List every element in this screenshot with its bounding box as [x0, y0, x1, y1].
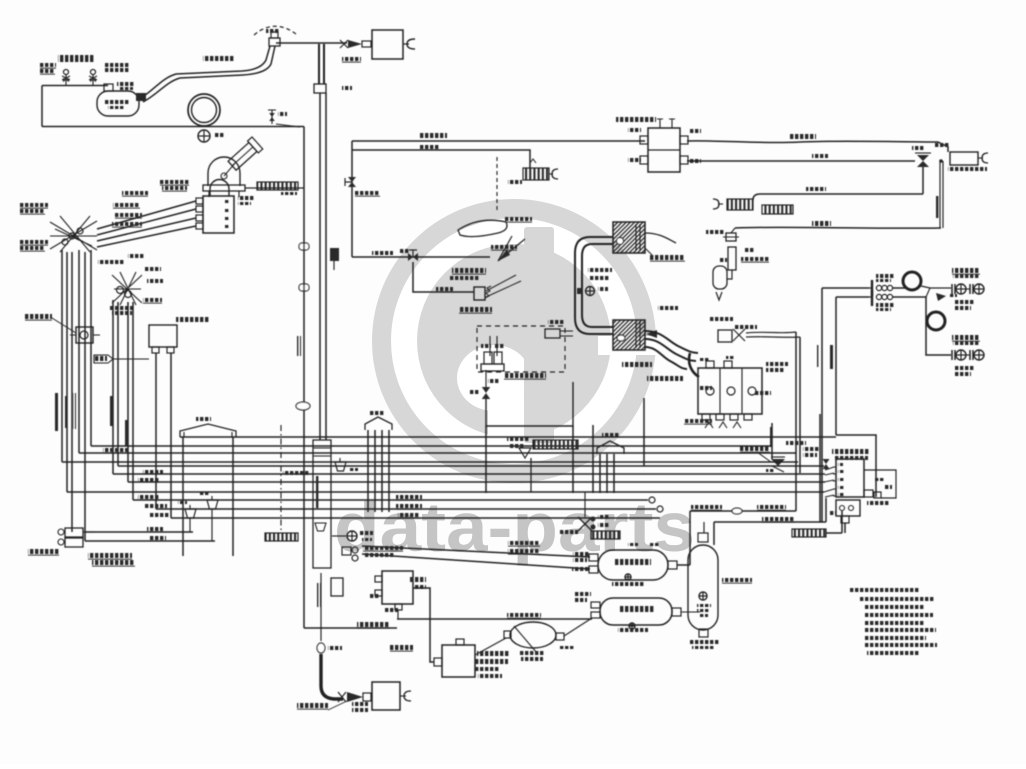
wire bus y474	[113, 473, 825, 475]
lift valve manifold	[698, 361, 762, 428]
heater inlet arrow fitting	[340, 40, 371, 48]
wire drop x128	[127, 302, 129, 482]
wire radiator to right drop	[245, 187, 304, 189]
control valve hatched A	[613, 222, 685, 261]
radiator filler neck	[227, 137, 263, 172]
label near tee valve top	[912, 146, 924, 150]
air dryer inlet fitting	[706, 228, 739, 241]
coupler dark triangle	[936, 293, 957, 301]
tank cover tent 1	[180, 417, 236, 437]
hose manifold inlet	[689, 353, 699, 377]
name plate mid 2	[591, 531, 620, 539]
wire x836 drop	[835, 297, 837, 435]
wire reservoir feed 1	[362, 546, 590, 557]
heater C-connector	[403, 39, 415, 49]
fitting on x303	[296, 402, 310, 410]
wire compressor port 4	[97, 222, 196, 247]
wire valve drop to y292	[413, 262, 474, 292]
coiled hose A	[903, 272, 921, 290]
labels port compressor right	[238, 196, 254, 205]
label mid right y452	[786, 441, 806, 445]
labels above cluster B	[128, 254, 144, 258]
steering column ladder	[313, 440, 331, 568]
wire oval to reservoir2	[564, 618, 592, 636]
dark component x330	[330, 248, 339, 270]
wire compressor port 18	[97, 213, 196, 241]
shutoff valve under heater	[470, 370, 490, 399]
hand valve C connector	[400, 691, 411, 701]
direction arrow figure	[498, 236, 525, 261]
bus funnel valve 2	[200, 492, 218, 541]
wire manifold links	[746, 332, 800, 337]
labels right heater dashed	[548, 320, 564, 324]
fitting lower x321	[317, 643, 342, 653]
heater sub box	[486, 382, 573, 426]
wire bus y437	[180, 436, 836, 438]
air dryer tank	[713, 258, 732, 300]
air reservoir 1	[572, 550, 677, 586]
wire x430 link	[413, 588, 434, 662]
drain valve symbol	[198, 130, 224, 142]
wire x303 bottom corner	[304, 622, 397, 628]
wire second top bus	[352, 145, 530, 168]
labels around cluster B	[98, 260, 163, 315]
pipe from tank to cab heater	[136, 46, 275, 102]
hose coupling A	[869, 274, 894, 296]
center labels	[450, 268, 486, 280]
distributor block	[833, 459, 864, 497]
wire x800 drop	[799, 337, 801, 473]
wire vertical x352	[351, 141, 353, 257]
wire x303 long	[303, 127, 305, 629]
distributor outer wire	[864, 470, 896, 498]
wire drop x941 pipe	[939, 159, 943, 228]
relief valve 2	[89, 70, 97, 86]
label thick hose	[297, 701, 347, 710]
junction cluster A	[50, 216, 97, 252]
labels near x941 pipe	[936, 196, 939, 218]
wire reservoir feed 2	[362, 554, 590, 569]
label plate header top-left	[58, 55, 94, 62]
wire coupling A to coil	[893, 287, 906, 289]
wire callout to box	[113, 358, 149, 360]
tee valve right	[915, 153, 931, 167]
wire compressor port 1	[97, 191, 196, 229]
wire x486 drop	[485, 426, 487, 493]
label callout left	[25, 314, 76, 333]
hose coupling B	[869, 290, 894, 311]
air compressor	[196, 180, 234, 234]
brake chamber pair B	[952, 335, 984, 376]
loop cross fitting	[577, 268, 612, 296]
thick hose bottom-left	[321, 654, 343, 699]
wire bus y446	[91, 445, 772, 447]
foot brake valve	[58, 528, 95, 547]
union fitting 1 on x304	[299, 243, 309, 250]
pipe column fitting	[314, 84, 326, 93]
wire bus y518	[171, 517, 660, 519]
wire tent3 drops	[600, 454, 614, 493]
wire bus y466	[118, 465, 824, 467]
labels right of dryer	[745, 248, 755, 252]
wire x573 drop	[572, 426, 574, 493]
watermark text data-parts	[334, 488, 695, 566]
labels distributor right small	[874, 478, 884, 481]
vertical air tank	[688, 522, 752, 644]
right heater box	[935, 143, 988, 171]
wire x644 drop	[643, 398, 645, 466]
tank cover tent 3	[597, 433, 624, 454]
wire hatched A to right	[645, 233, 676, 243]
lower left small box	[331, 578, 343, 596]
hand control valve box	[372, 682, 400, 710]
reservoir tank (cloud)	[97, 82, 139, 116]
label plate right of radiator	[257, 182, 298, 195]
label above x352 lower	[355, 191, 380, 196]
clutch component	[70, 327, 100, 343]
wire drop x113	[112, 300, 114, 474]
wire relay to oval tank	[475, 638, 506, 655]
wire x772 drop	[769, 423, 772, 459]
trailer label plate	[792, 529, 826, 537]
vertical label bar x297	[297, 336, 301, 356]
labels above manifold	[700, 356, 734, 361]
distributor right ports	[864, 485, 892, 505]
air dryer cartridge	[728, 247, 769, 270]
wire x826 riser	[825, 498, 827, 522]
rotated labels top-left of bus	[55, 393, 128, 446]
heater pipe right column	[319, 44, 324, 84]
wire long top bus to relay	[352, 133, 645, 141]
governor label plate	[762, 205, 793, 214]
wire x822 long drop	[821, 288, 823, 522]
cab heater box	[372, 30, 403, 59]
distributor fan wires	[824, 467, 834, 497]
labels near manifold right	[766, 362, 788, 372]
wire line B elbow	[893, 297, 951, 355]
control valve hatched B	[613, 306, 678, 350]
dash-dot datum line	[280, 425, 282, 530]
wire air-tank top line	[42, 85, 108, 87]
wire distributor bottom drop	[844, 523, 846, 533]
wire to governor plates	[753, 187, 923, 200]
label under heater inlet	[342, 57, 361, 62]
wire drop from tee	[922, 167, 924, 194]
wire drop x72	[71, 252, 73, 532]
wire drop x67	[66, 252, 68, 492]
x fitting mid	[578, 492, 609, 531]
wire x820 drop	[819, 414, 821, 522]
wire relay lower to right	[687, 154, 915, 161]
manifold X fitting	[710, 317, 757, 342]
bus labels mid	[283, 471, 422, 518]
tank cover tent 2	[365, 411, 392, 430]
wire drop x91	[90, 250, 92, 446]
name plate mid	[507, 437, 578, 449]
wire bus y532	[85, 531, 193, 533]
wire drop x79	[78, 250, 80, 453]
labels foot brake	[28, 549, 135, 566]
wire tent1 drops	[183, 437, 233, 556]
wire bus y541	[85, 540, 215, 542]
wire drop x62	[61, 250, 63, 462]
wire tent2 drops	[368, 430, 389, 512]
relay valve block	[390, 639, 510, 678]
wire y257 center	[352, 251, 490, 257]
brake light switch	[459, 275, 521, 313]
wire relay to right heater box	[687, 134, 948, 152]
bus funnel valve 3	[335, 458, 358, 471]
bus funnel valve 1	[178, 501, 196, 532]
labels left capsule1	[628, 543, 660, 546]
wire x321 drop	[317, 573, 321, 641]
junction cluster B	[112, 272, 142, 305]
wire parking block drop	[397, 610, 399, 619]
wire x320 drop	[319, 93, 321, 440]
wire x326 drop	[325, 93, 327, 440]
wire corner to distributor	[836, 435, 876, 497]
pointed callout	[94, 355, 113, 363]
hand valve arrow fitting	[338, 692, 371, 702]
union fitting 2 on x304	[299, 284, 309, 291]
wire bus y492	[67, 491, 824, 493]
wire trailer line y522	[714, 517, 826, 522]
quick release valve	[740, 446, 785, 472]
relief valve 1	[62, 70, 70, 86]
labels left of radiator	[160, 180, 189, 191]
muffler box small	[523, 159, 558, 180]
labels hand valve	[352, 702, 368, 712]
vertical hose labels	[817, 345, 833, 369]
loop pipe outer	[575, 237, 613, 334]
valve under plate	[519, 448, 531, 492]
governor plate	[713, 199, 753, 210]
loop pipe inner	[582, 244, 613, 327]
wire drop x156	[155, 353, 157, 509]
wire x796 drop	[795, 332, 797, 511]
bus labels reservoir feeds	[508, 541, 540, 554]
wire drop x85	[84, 252, 86, 541]
label right oval tank	[560, 646, 574, 649]
labels right of reservoir feeds	[560, 530, 578, 534]
junction box	[149, 317, 210, 353]
wire bus y462	[62, 461, 798, 463]
wire brake line A	[822, 287, 869, 289]
distributor lower block	[829, 500, 860, 523]
wire drop x171	[170, 353, 172, 518]
wire compressor port 13	[97, 203, 196, 235]
wire main horizontal top-left	[42, 126, 304, 128]
check valve right of coil	[268, 110, 300, 127]
name plate left mid	[265, 533, 298, 541]
wire reservoir1 out	[677, 511, 690, 565]
notes text block	[850, 588, 937, 655]
labels under VT tank	[692, 646, 714, 649]
label near seat top	[508, 180, 522, 184]
coiled hose B	[927, 312, 945, 330]
wire brake line B	[836, 296, 869, 298]
protection valve relay	[616, 117, 701, 172]
wire bus y509	[156, 506, 663, 512]
valve on x352	[345, 177, 356, 187]
wire bus y453	[79, 452, 796, 454]
distributor labels	[803, 447, 869, 460]
parking valve block	[369, 571, 426, 612]
coil ring	[188, 94, 220, 126]
wire bus y482	[128, 481, 825, 483]
wire x714 drop	[713, 522, 715, 545]
heater unit dashed box	[477, 326, 573, 383]
oval air tank	[504, 622, 564, 661]
radiator header dome	[203, 157, 245, 197]
small label x342	[342, 86, 352, 90]
air reservoir 2	[575, 592, 681, 632]
label rows left of valves	[40, 63, 129, 74]
labels manifold	[684, 386, 771, 424]
labels left of cluster A	[20, 203, 48, 251]
parking valve cluster	[342, 546, 403, 561]
hose bundle from hatched B	[622, 331, 698, 381]
dashed breather arc	[254, 26, 296, 35]
valve on y257	[400, 249, 418, 261]
wire plate link	[826, 511, 842, 533]
wire drop x133	[132, 302, 134, 500]
wire reservoir2 out	[681, 611, 700, 613]
brake chamber pair A	[952, 268, 984, 310]
pipe top fitting	[269, 32, 280, 46]
drain symbol x352	[332, 531, 373, 541]
wire drop x118	[117, 302, 119, 466]
distributor inlet bowtie	[823, 459, 830, 469]
wire left drop	[41, 86, 43, 127]
watermark logo disc	[372, 199, 658, 483]
wire bus y500	[133, 497, 655, 503]
wire coil to chamber A	[921, 286, 951, 297]
wire pipe to heater box	[276, 42, 347, 44]
driver seat outline	[458, 157, 532, 250]
wire hand valve line	[690, 505, 796, 514]
wire y619 feed	[397, 613, 592, 619]
bus labels left	[103, 448, 170, 540]
wire x593 drop	[592, 425, 594, 493]
wire horizontal y228	[735, 221, 941, 228]
